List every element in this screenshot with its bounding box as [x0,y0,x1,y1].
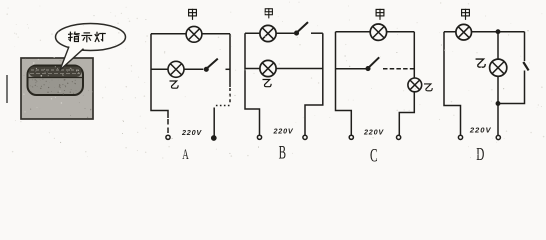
svg-text:C: C [370,146,378,165]
svg-text:A: A [182,146,189,163]
svg-text:D: D [476,146,484,165]
svg-text:220V: 220V [181,128,202,137]
svg-text:220V: 220V [469,126,492,135]
svg-text:B: B [279,143,286,164]
svg-text:220V: 220V [273,126,294,135]
svg-text:220V: 220V [363,128,384,137]
